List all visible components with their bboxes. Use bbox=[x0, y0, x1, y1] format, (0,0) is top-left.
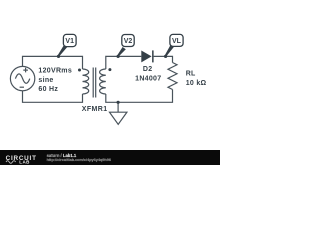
junction node VL bbox=[164, 55, 167, 58]
watermark logo wave bbox=[6, 161, 16, 164]
flag box V2 bbox=[122, 35, 134, 47]
transformer phase dot primary bbox=[78, 69, 81, 72]
flag box V1 bbox=[63, 34, 76, 46]
junction ground node bbox=[117, 101, 120, 104]
svg-text:XFMR1: XFMR1 bbox=[82, 106, 108, 113]
flag pointer VL bbox=[165, 45, 174, 57]
wire primary bottom bbox=[23, 91, 83, 103]
flag box VL bbox=[170, 34, 183, 46]
svg-text:1N4007: 1N4007 bbox=[135, 75, 161, 82]
transformer phase dot secondary bbox=[108, 68, 111, 71]
ground stub bbox=[117, 102, 119, 112]
sine wave inside source bbox=[15, 74, 29, 83]
svg-text:120VRms: 120VRms bbox=[38, 68, 72, 75]
svg-text:sine: sine bbox=[38, 77, 53, 84]
wire resistor bottom / secondary bottom bbox=[106, 90, 173, 103]
svg-text:D2: D2 bbox=[143, 66, 153, 73]
svg-text:http://circuitlab.com/c/4py6y4: http://circuitlab.com/c/4py6y4q9h96 bbox=[47, 158, 111, 162]
transformer core lines bbox=[93, 68, 96, 98]
svg-text:60 Hz: 60 Hz bbox=[38, 86, 58, 93]
svg-text:10 kΩ: 10 kΩ bbox=[186, 80, 207, 87]
minus sign bbox=[20, 86, 24, 88]
plus sign bbox=[23, 68, 28, 73]
flag pointer V2 bbox=[117, 47, 126, 56]
transformer XFMR1 primary coil bbox=[83, 69, 89, 94]
resistor RL zigzag bbox=[168, 63, 177, 90]
junction node V2 bbox=[117, 55, 120, 58]
flag pointer V1 bbox=[58, 45, 68, 57]
wire primary top bbox=[23, 56, 83, 69]
wire diode to resistor bbox=[154, 56, 173, 62]
svg-text:V2: V2 bbox=[124, 38, 133, 45]
svg-text:V1: V1 bbox=[65, 38, 74, 45]
ground triangle bbox=[110, 112, 127, 124]
junction node V1 bbox=[57, 55, 60, 58]
svg-text:RL: RL bbox=[186, 71, 196, 78]
transformer secondary coil bbox=[100, 69, 106, 94]
watermark bar bbox=[0, 150, 220, 165]
svg-text:VL: VL bbox=[172, 38, 182, 45]
voltage source V? circle bbox=[10, 66, 34, 90]
svg-text:LAB: LAB bbox=[19, 160, 30, 165]
diode D2 triangle bbox=[141, 51, 151, 63]
diode D2 cathode bar bbox=[152, 50, 154, 62]
wire secondary top bbox=[106, 56, 142, 69]
